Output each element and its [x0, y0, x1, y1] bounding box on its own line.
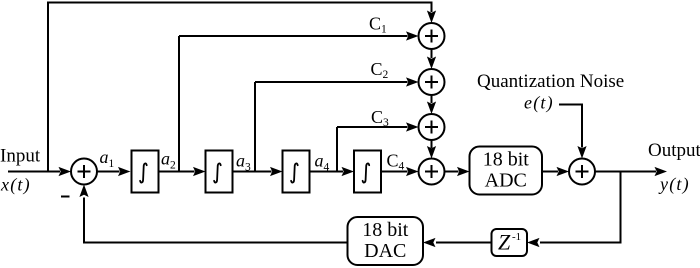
svg-text:e(t): e(t) [524, 93, 554, 114]
svg-text:Input: Input [0, 146, 41, 167]
svg-text:a4: a4 [315, 151, 330, 174]
svg-text:C1: C1 [369, 14, 387, 36]
svg-text:C4: C4 [387, 151, 405, 173]
svg-text:a3: a3 [236, 151, 251, 174]
svg-text:x(t): x(t) [0, 175, 31, 196]
svg-text:C3: C3 [371, 107, 389, 129]
svg-text:y(t): y(t) [658, 174, 690, 195]
svg-text:ADC: ADC [485, 170, 527, 192]
svg-text:18 bit: 18 bit [362, 219, 409, 241]
svg-text:Quantization Noise: Quantization Noise [477, 71, 624, 92]
svg-text:Z: Z [498, 230, 511, 255]
svg-text:a1: a1 [100, 147, 115, 170]
svg-text:DAC: DAC [364, 240, 406, 262]
svg-text:18 bit: 18 bit [483, 149, 530, 171]
svg-text:C2: C2 [371, 59, 389, 81]
svg-text:Output: Output [648, 140, 700, 161]
svg-text:a2: a2 [161, 149, 176, 172]
svg-text:-1: -1 [512, 231, 521, 243]
